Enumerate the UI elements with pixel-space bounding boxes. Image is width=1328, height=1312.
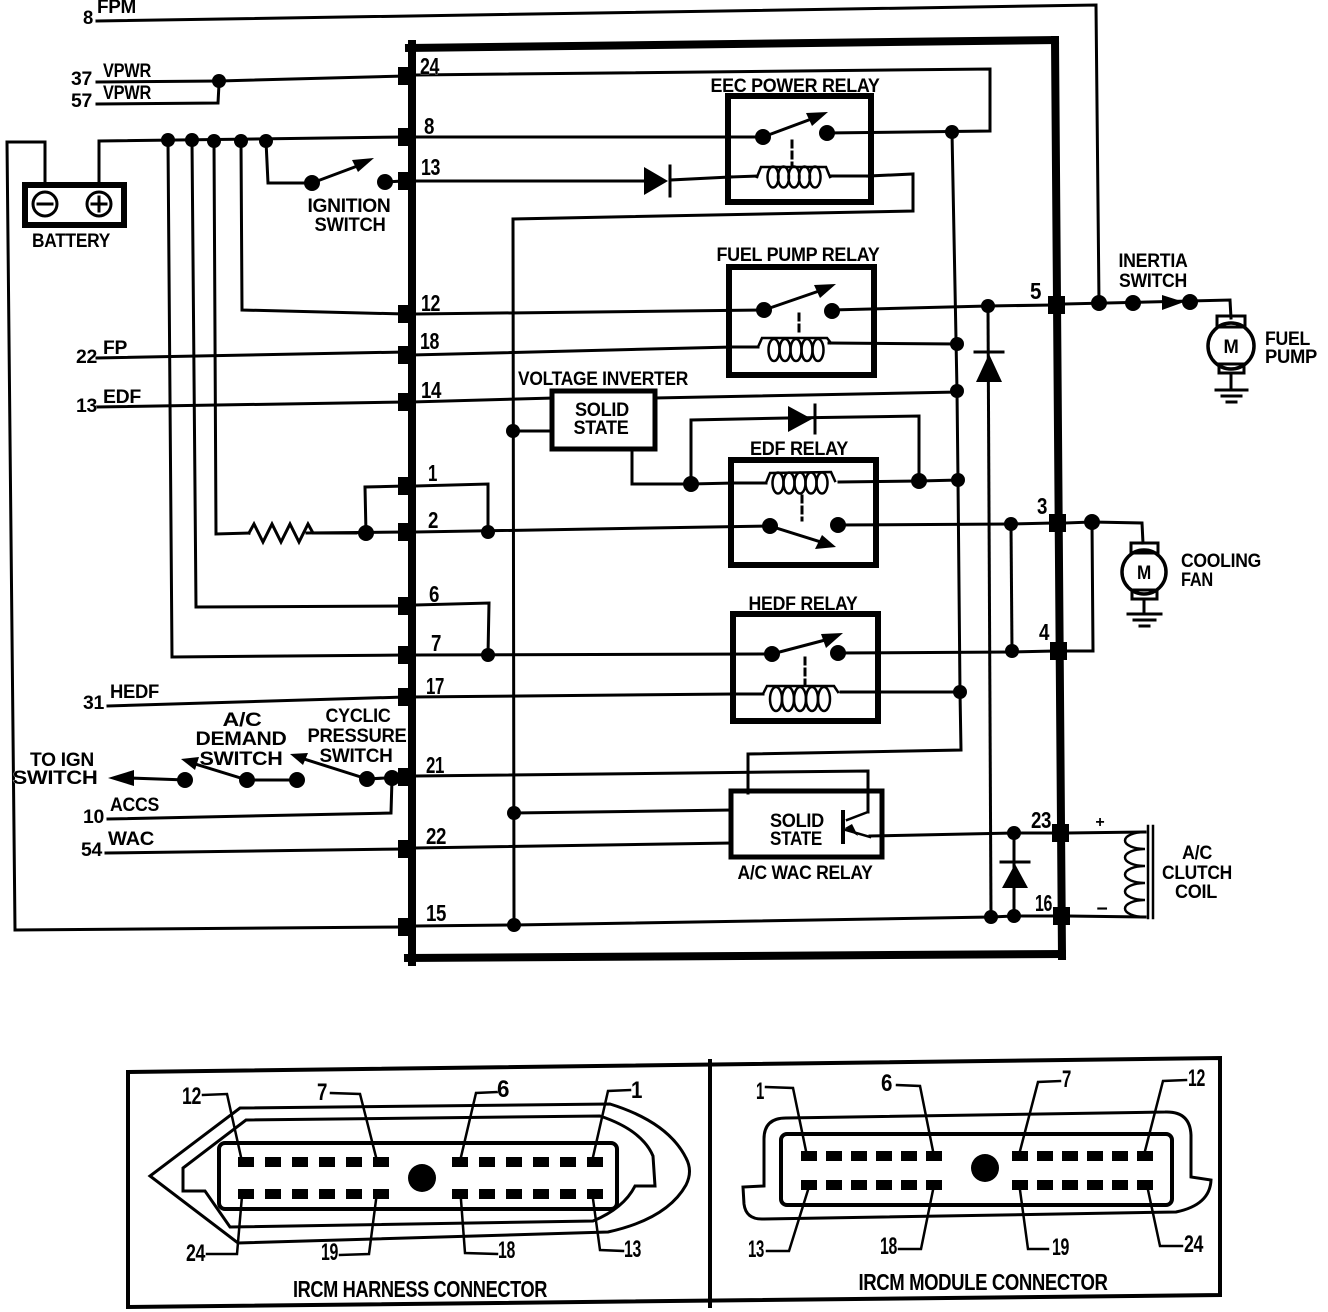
- svg-text:1: 1: [631, 1077, 642, 1104]
- svg-text:COOLING: COOLING: [1181, 551, 1261, 572]
- svg-text:BATTERY: BATTERY: [32, 230, 110, 252]
- svg-text:18: 18: [420, 328, 440, 354]
- svg-text:SWITCH: SWITCH: [315, 214, 386, 236]
- svg-text:22: 22: [426, 823, 446, 849]
- svg-text:16: 16: [1035, 890, 1052, 916]
- svg-text:10: 10: [83, 807, 104, 828]
- svg-text:IRCM HARNESS CONNECTOR: IRCM HARNESS CONNECTOR: [293, 1276, 548, 1302]
- svg-text:PRESSURE: PRESSURE: [308, 725, 407, 747]
- svg-text:3: 3: [1037, 493, 1047, 519]
- svg-text:18: 18: [880, 1233, 897, 1260]
- svg-text:FP: FP: [103, 338, 128, 359]
- svg-text:STATE: STATE: [770, 829, 822, 850]
- svg-text:12: 12: [1188, 1065, 1205, 1092]
- svg-text:19: 19: [321, 1239, 338, 1266]
- svg-text:FPM: FPM: [97, 0, 136, 18]
- svg-text:7: 7: [431, 630, 441, 656]
- svg-text:PUMP: PUMP: [1265, 346, 1317, 368]
- svg-text:ACCS: ACCS: [110, 795, 159, 816]
- svg-text:24: 24: [186, 1240, 206, 1267]
- svg-text:21: 21: [426, 752, 445, 778]
- svg-text:13: 13: [76, 396, 97, 417]
- svg-text:7: 7: [1062, 1066, 1071, 1093]
- svg-text:5: 5: [1030, 278, 1042, 304]
- svg-text:6: 6: [497, 1076, 509, 1103]
- svg-text:SWITCH: SWITCH: [200, 748, 283, 770]
- svg-text:WAC: WAC: [108, 829, 155, 850]
- svg-text:57: 57: [71, 91, 92, 112]
- svg-text:FAN: FAN: [1181, 570, 1213, 591]
- svg-text:13: 13: [421, 154, 440, 180]
- svg-text:−: −: [1096, 898, 1107, 920]
- svg-text:VPWR: VPWR: [103, 83, 151, 104]
- svg-text:6: 6: [881, 1070, 892, 1097]
- svg-text:SWITCH: SWITCH: [13, 768, 98, 789]
- svg-text:A/C WAC RELAY: A/C WAC RELAY: [738, 862, 873, 884]
- svg-text:HEDF RELAY: HEDF RELAY: [749, 593, 858, 615]
- svg-text:CYCLIC: CYCLIC: [326, 705, 391, 727]
- svg-text:54: 54: [81, 840, 103, 861]
- svg-text:HEDF: HEDF: [110, 682, 159, 703]
- svg-text:24: 24: [1184, 1231, 1204, 1258]
- svg-text:2: 2: [428, 507, 438, 533]
- svg-text:13: 13: [624, 1236, 641, 1263]
- svg-text:SWITCH: SWITCH: [320, 745, 393, 767]
- svg-text:14: 14: [421, 377, 442, 403]
- svg-text:EEC POWER RELAY: EEC POWER RELAY: [711, 75, 880, 97]
- svg-text:6: 6: [429, 581, 439, 607]
- svg-text:COIL: COIL: [1175, 882, 1218, 903]
- svg-text:12: 12: [421, 290, 440, 316]
- svg-text:31: 31: [83, 693, 105, 714]
- svg-text:A/C: A/C: [1182, 843, 1213, 864]
- svg-text:SWITCH: SWITCH: [1119, 271, 1187, 292]
- svg-text:22: 22: [76, 347, 97, 368]
- svg-text:EDF: EDF: [103, 387, 141, 408]
- svg-text:VOLTAGE INVERTER: VOLTAGE INVERTER: [518, 368, 688, 390]
- svg-text:19: 19: [1052, 1234, 1069, 1261]
- svg-text:8: 8: [83, 8, 93, 29]
- svg-text:CLUTCH: CLUTCH: [1162, 863, 1232, 884]
- svg-text:EDF RELAY: EDF RELAY: [750, 438, 848, 460]
- svg-text:FUEL PUMP RELAY: FUEL PUMP RELAY: [717, 244, 880, 266]
- svg-text:12: 12: [182, 1083, 201, 1110]
- svg-text:15: 15: [426, 900, 447, 926]
- svg-text:4: 4: [1039, 619, 1050, 645]
- svg-text:8: 8: [424, 113, 435, 139]
- svg-text:VPWR: VPWR: [103, 61, 151, 82]
- svg-text:M: M: [1137, 563, 1151, 584]
- svg-text:1: 1: [756, 1078, 764, 1105]
- svg-text:IRCM MODULE CONNECTOR: IRCM MODULE CONNECTOR: [859, 1269, 1109, 1295]
- svg-text:13: 13: [748, 1236, 764, 1263]
- svg-text:23: 23: [1031, 807, 1051, 833]
- svg-text:INERTIA: INERTIA: [1119, 251, 1189, 272]
- svg-text:7: 7: [317, 1079, 327, 1106]
- svg-text:18: 18: [498, 1237, 515, 1264]
- svg-text:+: +: [1095, 814, 1104, 831]
- svg-text:17: 17: [426, 673, 444, 699]
- svg-text:24: 24: [420, 53, 440, 79]
- svg-text:STATE: STATE: [574, 418, 629, 439]
- svg-text:37: 37: [71, 69, 92, 90]
- svg-text:1: 1: [428, 460, 438, 486]
- svg-text:DEMAND: DEMAND: [196, 728, 287, 750]
- svg-text:M: M: [1224, 336, 1239, 358]
